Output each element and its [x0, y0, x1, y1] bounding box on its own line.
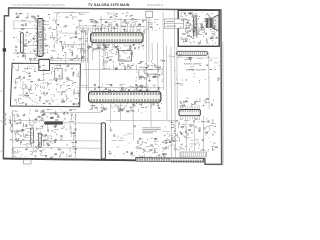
component cluster: audio out parts (bottom right)	[168, 118, 218, 151]
wire bundle up from IF box	[82, 30, 88, 63]
component cluster: audio/vertical parts (bottom left)	[9, 109, 77, 159]
resistor zigzags below pill connector	[139, 63, 204, 75]
IC U2 (large horizontal jungle IC)	[89, 90, 161, 104]
component cluster: parts above U1	[89, 19, 144, 32]
svg-text:TV-5107/5114/21A5/21M5 CHASSIS: TV-5107/5114/21A5/21M5 CHASSIS	[12, 3, 65, 7]
notes text block	[142, 128, 161, 133]
sub-circuit box (IF/tuner section)	[10, 63, 80, 106]
wire below pill	[177, 57, 220, 59]
component cluster: labels below U1 left	[92, 44, 113, 52]
component cluster: power in parts (bottom mid)	[136, 138, 168, 158]
IC U4 (audio amp, right)	[179, 106, 200, 120]
component cluster: chroma parts (mid)	[136, 60, 165, 82]
connector bar (dark, audio section)	[44, 121, 63, 124]
component cluster: pin labels below U2	[89, 103, 161, 113]
connector strip J3 (below power box)	[176, 51, 208, 55]
component cluster: right mid parts	[169, 54, 219, 85]
shielded module on box top edge	[39, 60, 50, 71]
component cluster: parts right of U1	[143, 19, 160, 33]
component cluster: video amp parts (top left)	[13, 13, 89, 61]
left edge connector square	[3, 48, 6, 51]
IC U5 (vertical output IC, bottom center)	[101, 123, 105, 159]
registration tick marks left edge	[0, 31, 2, 151]
pin label text above U1	[80, 13, 146, 29]
deflection yoke / speaker symbol	[206, 15, 219, 31]
component cluster: sparse parts near U5	[109, 125, 136, 156]
small box near B+ node	[146, 11, 153, 17]
page shadow line right	[222, 42, 224, 165]
U1 pin stubs up	[92, 25, 140, 33]
component cluster: power supply parts (top right box)	[180, 12, 218, 44]
secondary connector row (bottom right)	[180, 152, 207, 157]
long bus wires	[12, 11, 209, 159]
bottom border thick segment	[3, 159, 136, 161]
transformer T1 windings	[193, 16, 197, 38]
component cluster: parts left of audio amp	[164, 125, 179, 151]
wire rows top-left section	[13, 21, 80, 53]
electrolytic capacitors C20 C21 (audio area)	[31, 128, 34, 143]
solder pads on left border	[3, 113, 6, 116]
component cluster: pin labels above U2	[91, 84, 160, 93]
IC U3 (vertical, left area)	[35, 19, 46, 57]
component cluster: sync parts (below U1)	[102, 50, 134, 70]
svg-text:TV SALORA 21F5 MAIN: TV SALORA 21F5 MAIN	[88, 3, 130, 7]
component cluster: parts above U4	[179, 98, 214, 108]
small connector below border (bottom left)	[24, 160, 32, 164]
sub-circuit box (power/deflection, top right)	[178, 10, 219, 46]
svg-text:SCH-5107-A: SCH-5107-A	[147, 3, 163, 7]
delay line module	[119, 51, 132, 61]
wires above B1 box	[30, 59, 88, 61]
component cluster: small parts below U1 bus	[88, 44, 144, 51]
wire pair from B+ box down	[146, 17, 149, 62]
component cluster: IF section parts (inside box)	[14, 65, 80, 106]
outer board border	[3, 8, 221, 165]
main edge connector row (bottom)	[136, 158, 204, 163]
small module inside box	[55, 69, 62, 79]
AC input terminal table	[164, 19, 183, 28]
vertical connector bar (left)	[20, 33, 23, 53]
IC U1 (horizontal DIP, top center)	[91, 31, 143, 45]
